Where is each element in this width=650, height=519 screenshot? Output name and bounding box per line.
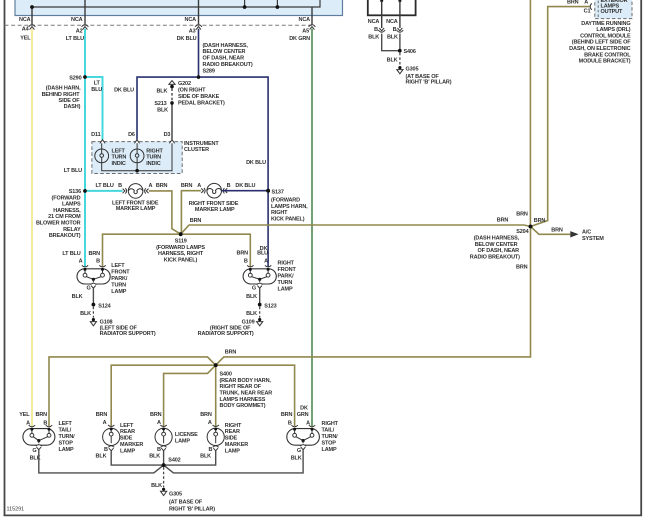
svg-text:BLK: BLK bbox=[200, 453, 211, 459]
svg-text:G: G bbox=[252, 286, 256, 292]
svg-text:RIGHT: RIGHT bbox=[271, 210, 288, 216]
svg-text:BLK: BLK bbox=[291, 456, 302, 462]
svg-text:STOP: STOP bbox=[322, 440, 337, 446]
ground G108 bbox=[90, 318, 96, 326]
wire BRN left marker to S119 bbox=[149, 191, 181, 234]
wire BRN S119 to S204 bbox=[181, 225, 531, 234]
svg-text:STOP: STOP bbox=[59, 440, 74, 446]
svg-text:LEFT: LEFT bbox=[111, 263, 125, 269]
left rear marker labels bbox=[96, 412, 144, 459]
splice S406 bbox=[398, 49, 402, 53]
splice S400 bbox=[214, 363, 218, 367]
S290 text bbox=[42, 75, 82, 110]
svg-text:BRAKE CONTROL: BRAKE CONTROL bbox=[584, 52, 631, 58]
svg-text:CONTROL MODULE: CONTROL MODULE bbox=[580, 33, 631, 39]
labels top connectors bbox=[19, 17, 310, 42]
svg-text:BELOW CENTER: BELOW CENTER bbox=[475, 242, 518, 248]
svg-text:BRN: BRN bbox=[96, 412, 108, 418]
left tail/turn/stop lamp bbox=[23, 425, 55, 450]
svg-text:(AT BASE OF: (AT BASE OF bbox=[169, 500, 203, 506]
label DK BLU branch D6 bbox=[114, 88, 134, 94]
wire BLK left tail to lower bus bbox=[39, 450, 164, 473]
svg-text:LAMPS (DRL): LAMPS (DRL) bbox=[596, 27, 630, 33]
svg-text:BRN: BRN bbox=[551, 227, 563, 233]
svg-text:TURN: TURN bbox=[278, 280, 293, 286]
svg-text:RIGHT 'B' PILLAR): RIGHT 'B' PILLAR) bbox=[169, 506, 215, 512]
wire BRN S400 to left rear marker pin A bbox=[111, 365, 216, 426]
svg-text:KICK PANEL): KICK PANEL) bbox=[164, 257, 198, 263]
svg-text:DK GRN: DK GRN bbox=[289, 36, 310, 42]
svg-text:115291: 115291 bbox=[7, 507, 25, 513]
S402 label bbox=[168, 457, 180, 463]
svg-text:TURN: TURN bbox=[111, 283, 126, 289]
svg-text:LAMP: LAMP bbox=[225, 448, 240, 454]
svg-text:A5: A5 bbox=[302, 29, 309, 35]
wire BRN S119 to left park lamp pin B bbox=[103, 234, 181, 266]
B-pillar labels bbox=[368, 19, 452, 85]
svg-text:REAR: REAR bbox=[225, 429, 240, 435]
svg-text:YEL: YEL bbox=[20, 36, 31, 42]
right turn indicator lamp bbox=[130, 143, 144, 163]
svg-text:OUTPUT: OUTPUT bbox=[601, 9, 624, 15]
svg-text:INSTRUMENT: INSTRUMENT bbox=[184, 141, 219, 147]
svg-text:BLU: BLU bbox=[257, 251, 268, 257]
svg-text:B: B bbox=[43, 421, 47, 427]
wire BRN S204 to A/C system bbox=[531, 227, 571, 235]
svg-text:D11: D11 bbox=[91, 132, 100, 138]
svg-text:(ON RIGHT: (ON RIGHT bbox=[178, 88, 206, 94]
G305 lower labels bbox=[151, 483, 215, 512]
connector pin A5 bbox=[309, 25, 316, 30]
svg-text:RADIATOR SUPPORT): RADIATOR SUPPORT) bbox=[198, 331, 254, 337]
wire DK BLU S289 to D6 bbox=[137, 77, 199, 140]
right front park/turn lamp bbox=[243, 265, 276, 288]
svg-text:B: B bbox=[374, 27, 378, 33]
svg-text:NCA: NCA bbox=[71, 17, 83, 23]
svg-text:CLUSTER: CLUSTER bbox=[184, 147, 209, 153]
wire DK BLU right marker to S137 bbox=[222, 190, 269, 192]
svg-text:A3: A3 bbox=[189, 29, 196, 35]
label BRN on S204 down wire bbox=[516, 265, 528, 271]
svg-text:BLK: BLK bbox=[387, 58, 398, 64]
svg-text:LAMP: LAMP bbox=[59, 447, 74, 453]
connector dashed line C2xx bbox=[5, 24, 313, 26]
svg-text:B: B bbox=[104, 447, 108, 453]
label BRN near S119 bbox=[190, 218, 202, 224]
S119 text bbox=[156, 239, 205, 264]
labels BLK S213 BLK bbox=[154, 89, 168, 114]
connector pin A2 bbox=[82, 25, 89, 30]
DRL pin C1 arc bbox=[590, 3, 592, 9]
svg-text:RIGHT 'B' PILLAR): RIGHT 'B' PILLAR) bbox=[406, 79, 452, 85]
page border bottom bbox=[4, 514, 642, 516]
svg-text:A: A bbox=[197, 183, 201, 189]
svg-text:LICENSE: LICENSE bbox=[175, 432, 198, 438]
svg-text:LAMP: LAMP bbox=[175, 439, 190, 445]
svg-text:YEL: YEL bbox=[19, 412, 30, 418]
splice S213 bbox=[170, 101, 173, 104]
svg-text:A/C: A/C bbox=[582, 230, 591, 236]
connector pin A4 bbox=[29, 25, 36, 30]
cluster labels bbox=[91, 132, 219, 167]
wire BLK license lamp to S402 bbox=[163, 451, 165, 465]
svg-text:S119: S119 bbox=[175, 239, 187, 245]
left front side marker lamp bbox=[123, 184, 149, 199]
svg-text:INDIC: INDIC bbox=[146, 161, 160, 167]
svg-text:S289: S289 bbox=[203, 68, 215, 74]
svg-text:MARKER LAMP: MARKER LAMP bbox=[195, 207, 235, 213]
svg-text:S123: S123 bbox=[264, 303, 276, 309]
svg-text:LT BLU: LT BLU bbox=[62, 251, 80, 257]
svg-text:BLOWER MOTOR: BLOWER MOTOR bbox=[36, 221, 81, 227]
svg-text:(FORWARD: (FORWARD bbox=[271, 198, 300, 204]
svg-text:BRN: BRN bbox=[36, 412, 48, 418]
wire BLK S213 to D3 bbox=[171, 103, 173, 140]
svg-text:B: B bbox=[157, 447, 161, 453]
cluster pin D11 bbox=[100, 140, 105, 144]
svg-text:BLK: BLK bbox=[387, 34, 398, 40]
wire LT BLU A2 main run bbox=[84, 29, 86, 267]
svg-text:A: A bbox=[79, 258, 83, 264]
svg-text:C1: C1 bbox=[584, 8, 591, 14]
svg-text:SIDE OF BRAKE: SIDE OF BRAKE bbox=[178, 94, 220, 100]
svg-text:A: A bbox=[157, 420, 161, 426]
svg-text:BLK: BLK bbox=[96, 453, 107, 459]
svg-text:D6: D6 bbox=[128, 132, 135, 138]
left turn indicator lamp bbox=[95, 143, 109, 163]
left front park/turn lamp bbox=[77, 265, 110, 288]
wire BLK G202 to S213 dashed bbox=[171, 88, 173, 101]
wire LT BLU S136 to left marker lamp bbox=[85, 190, 123, 192]
wire BRN S204 down to S400 bbox=[216, 227, 531, 366]
right front side marker lamp bbox=[201, 183, 227, 198]
svg-text:OF DASH, NEAR: OF DASH, NEAR bbox=[203, 56, 245, 62]
page border left bbox=[4, 0, 6, 516]
wire stub A2 (NCA) bbox=[84, 0, 86, 24]
wire BRN right marker to S119 bbox=[181, 191, 201, 235]
svg-text:LT: LT bbox=[94, 81, 101, 87]
svg-text:RELAY: RELAY bbox=[63, 227, 81, 233]
svg-text:FRONT: FRONT bbox=[111, 270, 130, 276]
svg-text:SYSTEM: SYSTEM bbox=[582, 236, 604, 242]
svg-text:LEFT: LEFT bbox=[112, 148, 126, 154]
svg-text:RIGHT: RIGHT bbox=[322, 421, 339, 427]
svg-text:A: A bbox=[26, 421, 30, 427]
svg-text:G305: G305 bbox=[169, 491, 182, 497]
splice S123 bbox=[258, 303, 262, 307]
A/C arrow bbox=[570, 231, 578, 237]
svg-text:KICK PANEL): KICK PANEL) bbox=[271, 216, 305, 222]
svg-text:RIGHT: RIGHT bbox=[278, 261, 295, 267]
splice S137 bbox=[266, 189, 270, 193]
svg-text:MARKER: MARKER bbox=[225, 442, 248, 448]
svg-text:21 CM FROM: 21 CM FROM bbox=[48, 214, 81, 220]
right rear side marker lamp bbox=[207, 425, 224, 451]
svg-text:LAMP: LAMP bbox=[278, 287, 293, 293]
G108 labels bbox=[72, 294, 156, 337]
svg-text:LT BLU: LT BLU bbox=[66, 36, 84, 42]
svg-text:(DASH HARNESS,: (DASH HARNESS, bbox=[203, 43, 249, 49]
splice S402 bbox=[162, 463, 166, 467]
svg-text:INDIC: INDIC bbox=[112, 161, 126, 167]
wire BLK B-pillar right pin bbox=[399, 1, 401, 29]
DRL pin labels bbox=[567, 0, 590, 14]
svg-text:LAMPS HARNESS: LAMPS HARNESS bbox=[220, 397, 266, 403]
svg-text:MARKER: MARKER bbox=[120, 442, 143, 448]
svg-text:MODULE BRACKET): MODULE BRACKET) bbox=[579, 59, 631, 65]
svg-text:BRN: BRN bbox=[516, 212, 528, 218]
wire stub A3 (NCA) bbox=[198, 0, 200, 24]
svg-text:BRN: BRN bbox=[567, 0, 579, 6]
ground G202 bbox=[169, 81, 175, 89]
svg-text:TURN/: TURN/ bbox=[322, 434, 339, 440]
svg-text:NCA: NCA bbox=[386, 19, 398, 25]
wire YEL A4 to left tail lamp bbox=[31, 29, 33, 426]
svg-text:BLK: BLK bbox=[80, 311, 91, 317]
svg-text:FRONT: FRONT bbox=[278, 267, 297, 273]
svg-text:BLK: BLK bbox=[157, 107, 168, 113]
connector pin A3 bbox=[195, 25, 202, 30]
wire BRN S400 to left tail lamp pin B bbox=[49, 357, 216, 426]
svg-text:A: A bbox=[264, 258, 268, 264]
label DK BLU right branch bbox=[246, 160, 266, 166]
svg-text:S400: S400 bbox=[220, 372, 232, 378]
svg-text:LAMP: LAMP bbox=[322, 447, 337, 453]
left park lamp labels bbox=[62, 251, 130, 295]
svg-text:BODY GROMMET): BODY GROMMET) bbox=[220, 403, 266, 409]
svg-text:LAMPS: LAMPS bbox=[62, 202, 81, 208]
svg-text:S290: S290 bbox=[69, 75, 81, 81]
svg-text:NCA: NCA bbox=[299, 17, 311, 23]
svg-text:S137: S137 bbox=[272, 189, 284, 195]
svg-text:DK BLU: DK BLU bbox=[177, 36, 197, 42]
wire DK GRN A5 to right tail lamp bbox=[311, 29, 313, 426]
svg-text:S136: S136 bbox=[69, 189, 81, 195]
svg-text:A: A bbox=[148, 183, 152, 189]
svg-text:A2: A2 bbox=[76, 29, 83, 35]
cluster pin D3 bbox=[169, 140, 174, 144]
wire BLK B-pillar left pin bbox=[381, 1, 383, 29]
S289 text bbox=[203, 43, 253, 75]
G202 text bbox=[178, 81, 225, 107]
svg-text:NCA: NCA bbox=[19, 17, 31, 23]
svg-text:(DASH HARN,: (DASH HARN, bbox=[46, 86, 81, 92]
page border right bbox=[640, 0, 642, 516]
splice S204 bbox=[529, 225, 533, 229]
svg-text:MARKER LAMP: MARKER LAMP bbox=[116, 206, 156, 212]
S400 text bbox=[220, 372, 273, 410]
license lamp bbox=[155, 425, 172, 451]
svg-text:BRN: BRN bbox=[181, 183, 193, 189]
svg-text:(REAR BODY HARN,: (REAR BODY HARN, bbox=[220, 378, 272, 384]
wire DK BLU S289 to S137 to right park lamp pin A bbox=[199, 77, 269, 266]
B-pillar connector box (cut off at top) bbox=[368, 0, 416, 15]
connector pin B right bbox=[397, 28, 404, 32]
svg-text:NCA: NCA bbox=[185, 17, 197, 23]
svg-text:B: B bbox=[96, 258, 100, 264]
wire BLK right tail to lower bus bbox=[164, 450, 304, 473]
svg-text:B: B bbox=[118, 183, 122, 189]
svg-text:(FORWARD: (FORWARD bbox=[52, 195, 81, 201]
splice S290 bbox=[83, 75, 87, 79]
svg-text:LAMP: LAMP bbox=[120, 448, 135, 454]
svg-text:(DASH HARNESS,: (DASH HARNESS, bbox=[474, 236, 520, 242]
wire BRN S400 to license lamp pin A bbox=[164, 365, 216, 426]
svg-text:B: B bbox=[244, 258, 248, 264]
svg-text:DASH, ON ELECTRONIC: DASH, ON ELECTRONIC bbox=[569, 46, 630, 52]
svg-text:G202: G202 bbox=[178, 81, 191, 87]
svg-text:DK BLU: DK BLU bbox=[246, 160, 266, 166]
svg-text:LT BLU: LT BLU bbox=[64, 168, 82, 174]
svg-text:BLK: BLK bbox=[72, 294, 83, 300]
svg-text:GRN: GRN bbox=[297, 412, 309, 418]
svg-text:REAR: REAR bbox=[120, 429, 135, 435]
S204 labels bbox=[470, 212, 604, 261]
right tail labels bbox=[281, 406, 339, 462]
wire DK BLU A3 to S289 bbox=[198, 29, 200, 77]
wire BRN S400 down to right rear marker pin A bbox=[215, 365, 217, 426]
svg-text:TAIL/: TAIL/ bbox=[59, 427, 72, 433]
svg-text:A4: A4 bbox=[22, 27, 30, 33]
svg-text:S406: S406 bbox=[404, 49, 416, 55]
DRL module output box (cut off at top) bbox=[595, 0, 632, 19]
svg-text:BEHIND RIGHT: BEHIND RIGHT bbox=[42, 92, 81, 98]
svg-text:BRN: BRN bbox=[516, 265, 528, 271]
svg-text:RADIO BREAKOUT): RADIO BREAKOUT) bbox=[203, 62, 253, 68]
splice S289 bbox=[197, 75, 200, 78]
wire BRN DRL to S204 bbox=[531, 7, 590, 227]
wire BLK S406 to G305 dashed bbox=[399, 53, 401, 66]
svg-text:A: A bbox=[103, 420, 107, 426]
wire BLK left rear marker to S402 bbox=[111, 451, 163, 465]
label LT BLU branch bbox=[91, 81, 102, 93]
right marker labels bbox=[181, 183, 256, 213]
svg-text:BRN: BRN bbox=[156, 183, 168, 189]
wire LT BLU branch S290 to D11 bbox=[85, 77, 103, 140]
svg-text:LAMPS HARN,: LAMPS HARN, bbox=[271, 204, 308, 210]
DRL box labels bbox=[601, 0, 628, 15]
svg-text:RIGHT REAR OF: RIGHT REAR OF bbox=[220, 384, 262, 390]
svg-text:LEFT: LEFT bbox=[59, 421, 73, 427]
right tail/turn/stop lamp bbox=[287, 425, 320, 450]
wire BLK S402 to G305 dashed bbox=[163, 467, 165, 487]
svg-text:G: G bbox=[297, 448, 301, 454]
cluster pin D6 bbox=[134, 140, 139, 144]
splice S119 bbox=[179, 232, 183, 236]
svg-text:S402: S402 bbox=[168, 457, 180, 463]
ground G305 upper bbox=[397, 66, 403, 74]
S137 text bbox=[271, 189, 308, 222]
svg-text:OF DASH, NEAR: OF DASH, NEAR bbox=[478, 248, 520, 254]
svg-text:DK BLU: DK BLU bbox=[114, 88, 134, 94]
svg-text:S124: S124 bbox=[98, 303, 111, 309]
DRL module text bbox=[569, 21, 631, 65]
svg-text:SIDE: SIDE bbox=[120, 436, 133, 442]
svg-text:PEDAL BRACKET): PEDAL BRACKET) bbox=[178, 101, 225, 107]
svg-text:B: B bbox=[227, 183, 231, 189]
svg-text:LEFT: LEFT bbox=[120, 423, 134, 429]
wire BLK right rear marker to S402 bbox=[164, 451, 216, 465]
instrument cluster box bbox=[92, 142, 182, 174]
wire stub A5 (NCA) bbox=[311, 7, 313, 25]
svg-text:TURN/: TURN/ bbox=[59, 434, 76, 440]
svg-text:LT BLU: LT BLU bbox=[95, 183, 113, 189]
svg-text:BLK: BLK bbox=[156, 89, 167, 95]
svg-text:A: A bbox=[306, 421, 310, 427]
svg-text:DASH): DASH) bbox=[64, 104, 81, 110]
svg-text:BRN: BRN bbox=[497, 218, 509, 224]
svg-text:RIGHT: RIGHT bbox=[146, 148, 163, 154]
svg-text:SIDE OF: SIDE OF bbox=[59, 98, 81, 104]
svg-text:LAMP: LAMP bbox=[111, 289, 126, 295]
svg-text:TURN: TURN bbox=[112, 155, 127, 161]
svg-text:DK BLU: DK BLU bbox=[235, 183, 255, 189]
svg-text:A: A bbox=[208, 420, 212, 426]
svg-text:D3: D3 bbox=[164, 132, 171, 138]
wire BLK right park lamp to S123 bbox=[259, 288, 261, 303]
svg-text:BRN: BRN bbox=[237, 251, 249, 257]
svg-text:G: G bbox=[87, 286, 91, 292]
license lamp labels bbox=[149, 412, 198, 460]
svg-text:RADIO BREAKOUT): RADIO BREAKOUT) bbox=[470, 254, 520, 260]
svg-text:(FORWARD LAMPS: (FORWARD LAMPS bbox=[156, 245, 205, 251]
svg-text:DK: DK bbox=[300, 406, 308, 412]
svg-text:TAIL/: TAIL/ bbox=[322, 427, 335, 433]
svg-text:BRN: BRN bbox=[200, 412, 212, 418]
wire BLK to S406 bbox=[382, 34, 398, 51]
wire BRN S119 to right park lamp pin B bbox=[181, 234, 251, 266]
svg-text:BELOW CENTER: BELOW CENTER bbox=[203, 49, 246, 55]
ground G109 bbox=[257, 318, 263, 326]
label BRN above S400 bbox=[225, 350, 237, 356]
svg-text:B: B bbox=[393, 27, 397, 33]
svg-text:BLK: BLK bbox=[149, 453, 160, 459]
wire BRN from top to S204 bbox=[529, 0, 531, 227]
right rear marker labels bbox=[200, 412, 248, 459]
svg-text:BRN: BRN bbox=[534, 218, 546, 224]
svg-text:RADIATOR SUPPORT): RADIATOR SUPPORT) bbox=[100, 331, 156, 337]
svg-text:BLU: BLU bbox=[91, 87, 102, 93]
svg-text:TURN: TURN bbox=[146, 155, 161, 161]
wire BLK left park lamp to S124 bbox=[92, 288, 94, 303]
wire BRN S400 to right tail lamp pin B bbox=[216, 365, 295, 426]
svg-text:BREAKOUT): BREAKOUT) bbox=[49, 233, 81, 239]
wire BLK S123 to G109 dashed bbox=[259, 307, 261, 318]
svg-text:RIGHT: RIGHT bbox=[225, 423, 242, 429]
svg-text:HARNESS, RIGHT: HARNESS, RIGHT bbox=[158, 251, 204, 257]
G109 labels bbox=[198, 294, 277, 337]
svg-text:B: B bbox=[208, 447, 212, 453]
svg-text:DAYTIME RUNNING: DAYTIME RUNNING bbox=[581, 21, 630, 27]
turn signal switch box (cut off at top) bbox=[15, 0, 343, 16]
svg-text:BLK: BLK bbox=[368, 34, 379, 40]
svg-text:PARK/: PARK/ bbox=[278, 274, 295, 280]
svg-text:S204: S204 bbox=[516, 229, 529, 235]
svg-text:G: G bbox=[32, 448, 36, 454]
splice S124 bbox=[92, 303, 96, 307]
svg-text:BLK: BLK bbox=[246, 311, 257, 317]
wire BLK S124 to G108 dashed bbox=[92, 307, 94, 318]
svg-text:(BEHIND LEFT SIDE OF: (BEHIND LEFT SIDE OF bbox=[572, 40, 632, 46]
svg-text:BRN: BRN bbox=[281, 412, 293, 418]
svg-text:G305: G305 bbox=[406, 67, 419, 73]
svg-text:RIGHT FRONT SIDE: RIGHT FRONT SIDE bbox=[189, 201, 239, 207]
svg-text:BRN: BRN bbox=[225, 350, 237, 356]
svg-text:BLK: BLK bbox=[246, 294, 257, 300]
svg-text:TRUNK, NEAR REAR: TRUNK, NEAR REAR bbox=[220, 391, 273, 397]
left tail labels bbox=[19, 412, 75, 462]
svg-text:SIDE: SIDE bbox=[225, 436, 238, 442]
